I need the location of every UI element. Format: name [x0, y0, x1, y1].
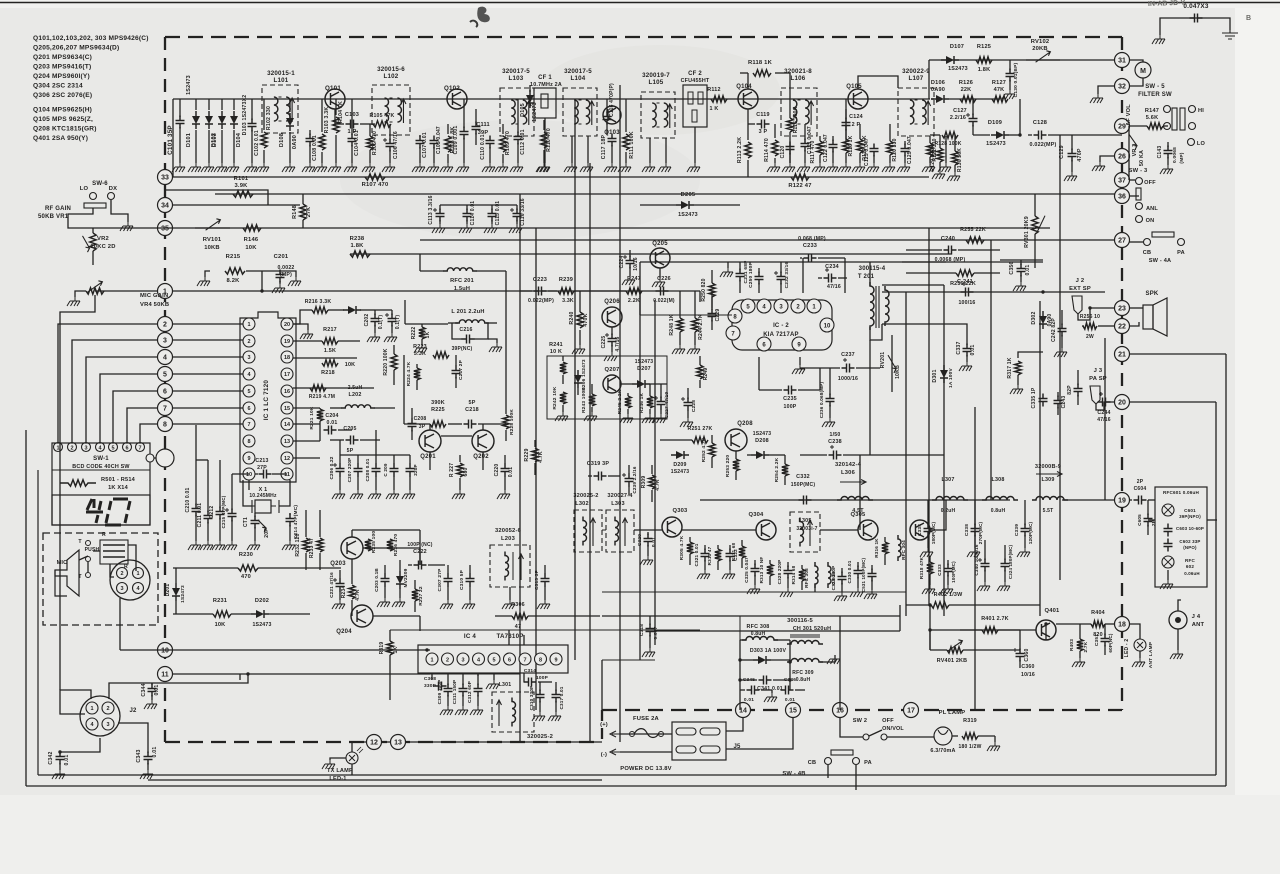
- ground R222: [414, 344, 427, 353]
- svg-text:VR 3: VR 3: [1132, 144, 1138, 157]
- wire mic1: [79, 556, 88, 560]
- wire sw5: [1163, 125, 1168, 127]
- D208 body: [756, 451, 764, 459]
- svg-text:R122 47: R122 47: [788, 183, 811, 189]
- svg-text:C321 0.01: C321 0.01: [694, 543, 699, 566]
- D105 body: [526, 95, 534, 103]
- svg-text:10.245MHz: 10.245MHz: [249, 493, 277, 499]
- R244 body: [692, 318, 698, 332]
- CT1 arrow: [258, 520, 266, 532]
- C143 body: [1164, 146, 1173, 159]
- wire SW-1 contact 5: [113, 391, 157, 443]
- IC1 pin 9: [243, 452, 255, 464]
- 7-segment digit 4: [86, 499, 103, 523]
- ground C317: [548, 712, 561, 721]
- svg-text:1S2473: 1S2473: [678, 212, 698, 218]
- node 33: [158, 170, 173, 185]
- wire SW6: [68, 208, 173, 228]
- R232 body: [303, 538, 309, 552]
- svg-text:7: 7: [163, 405, 167, 412]
- node 10: [158, 643, 173, 658]
- svg-text:ANT LAMP: ANT LAMP: [1148, 641, 1154, 668]
- svg-text:330P: 330P: [424, 683, 437, 689]
- wire node11 ext: [430, 673, 520, 675]
- svg-text:(+): (+): [600, 722, 608, 728]
- ground right: [1222, 30, 1238, 39]
- svg-text:5: 5: [163, 371, 167, 378]
- svg-text:CT1: CT1: [243, 517, 249, 527]
- node 19: [1115, 493, 1130, 508]
- IF transformer L105 320019-7: [641, 92, 675, 138]
- Q401 circle: [1036, 620, 1056, 640]
- svg-text:R129 270K: R129 270K: [930, 144, 936, 171]
- ground R103: [314, 163, 327, 172]
- coil box L301 320025-2: [492, 692, 534, 732]
- svg-text:36: 36: [1118, 193, 1126, 200]
- capacitor C215 47P(MC): [231, 474, 233, 510]
- ground: [687, 163, 700, 172]
- wire 27 sw4a: [1129, 241, 1143, 243]
- svg-text:R234: R234: [341, 586, 347, 599]
- IC1 pin 18: [281, 351, 293, 363]
- C333 body: [944, 564, 953, 577]
- svg-text:Q204 MPS960l(Y): Q204 MPS960l(Y): [33, 73, 90, 80]
- svg-text:LED-1: LED-1: [329, 776, 346, 782]
- chassis dashed bottom left: [165, 741, 602, 743]
- svg-text:1S2473: 1S2473: [948, 66, 968, 72]
- wire node10: [120, 649, 430, 651]
- node common big circle: [156, 449, 174, 467]
- D109 body: [996, 131, 1004, 139]
- IC4 pin 3: [457, 653, 469, 665]
- svg-text:C218: C218: [465, 407, 479, 413]
- wire to node 31: [1060, 59, 1114, 61]
- C122: [829, 140, 838, 153]
- svg-text:602: 602: [1186, 564, 1195, 569]
- IC1 pin 13: [281, 435, 293, 447]
- wire tx mesh1: [352, 529, 420, 531]
- svg-text:C233: C233: [803, 243, 817, 249]
- ground C113: [432, 224, 445, 233]
- C335 body: [1039, 394, 1048, 407]
- ground C320: [640, 556, 653, 565]
- wire bus 194: [215, 193, 1122, 195]
- svg-text:Q401 2SA 950(Y): Q401 2SA 950(Y): [33, 135, 88, 142]
- capacitor C101 35P body: [176, 116, 185, 129]
- svg-text:Q204: Q204: [336, 629, 352, 635]
- wire node2 to IC1 pin1: [173, 323, 243, 325]
- IC2 pin 2: [791, 299, 805, 313]
- svg-text:0.01: 0.01: [651, 537, 657, 547]
- svg-text:C603 10-60P: C603 10-60P: [1176, 526, 1204, 531]
- svg-text:Q102: Q102: [444, 85, 460, 92]
- SW-1 contact 2: [68, 443, 77, 452]
- C322 body: [726, 549, 735, 562]
- svg-text:C110 0.01: C110 0.01: [480, 134, 486, 159]
- svg-text:27K: 27K: [306, 207, 312, 218]
- connector J5 box: [672, 722, 726, 760]
- svg-text:J 2: J 2: [1076, 278, 1085, 284]
- wire VR4 down: [60, 295, 95, 430]
- R224 body: [414, 368, 420, 380]
- svg-text:14: 14: [284, 422, 291, 428]
- wire vert center 6: [639, 262, 641, 660]
- IC1 pin 8: [243, 435, 255, 447]
- arrow minus: [610, 749, 622, 755]
- wire crystal right: [279, 480, 290, 506]
- wire q401 leads: [930, 629, 1036, 631]
- svg-text:Q105 MPS 9625(Z,: Q105 MPS 9625(Z,: [33, 116, 93, 123]
- node 36: [1115, 189, 1130, 204]
- ground C337: [959, 362, 972, 371]
- D303 body: [758, 656, 766, 664]
- ground R245: [620, 414, 633, 423]
- L303 arrow: [623, 518, 628, 546]
- svg-text:R319: R319: [963, 718, 977, 724]
- TX lamp LED-1: [346, 752, 358, 764]
- svg-text:D303 1A 100V: D303 1A 100V: [750, 648, 787, 654]
- C220 body: [501, 464, 510, 477]
- wire main RF line: [173, 98, 930, 100]
- svg-text:300116-5: 300116-5: [787, 618, 813, 624]
- svg-text:Q208 KTC1815(GR): Q208 KTC1815(GR): [33, 126, 97, 133]
- svg-text:6: 6: [508, 658, 511, 664]
- wire vert right 6: [1104, 338, 1106, 500]
- R253 body: [733, 459, 739, 471]
- svg-text:C127: C127: [953, 108, 967, 114]
- svg-text:0.2uH: 0.2uH: [941, 508, 956, 514]
- ground C203b: [377, 598, 390, 607]
- svg-text:L307: L307: [941, 477, 954, 483]
- ceramic filter CF2 CFU455HT: [683, 85, 707, 127]
- IC1 pin 6: [243, 402, 255, 414]
- C318 body: [646, 624, 655, 637]
- ground R119: [852, 163, 865, 172]
- svg-text:RFC 308: RFC 308: [747, 624, 770, 630]
- svg-text:320019-7: 320019-7: [642, 72, 670, 79]
- svg-text:0.022(M): 0.022(M): [653, 298, 675, 304]
- L305 coil: [800, 518, 804, 547]
- ground C307: [440, 600, 453, 609]
- wire sw2 blade: [869, 730, 882, 736]
- svg-text:L305: L305: [798, 518, 811, 524]
- svg-text:C220: C220: [494, 464, 500, 477]
- svg-text:L106: L106: [791, 75, 806, 82]
- ground L104a: [571, 136, 573, 163]
- diode D104 1S2473: [233, 99, 235, 110]
- svg-text:47/16: 47/16: [827, 284, 841, 290]
- svg-text:15: 15: [789, 707, 797, 714]
- svg-text:3: 3: [106, 722, 109, 728]
- svg-text:2.2K: 2.2K: [628, 298, 640, 304]
- IC4 pin 1: [426, 653, 438, 665]
- VR4 arrow: [88, 281, 103, 292]
- C250 body: [755, 272, 764, 285]
- wire node8 to IC1 pin7: [173, 423, 243, 425]
- svg-text:R116 1K: R116 1K: [848, 135, 854, 156]
- svg-text:R223: R223: [413, 344, 427, 350]
- svg-text:0.01: 0.01: [970, 345, 976, 356]
- node 1: [158, 284, 173, 299]
- svg-text:L203: L203: [501, 536, 516, 542]
- svg-text:Q101: Q101: [325, 85, 341, 92]
- svg-text:C109 0.001: C109 0.001: [453, 126, 459, 155]
- CH301 coil: [787, 641, 823, 644]
- svg-text:(MP): (MP): [280, 272, 292, 278]
- Q204 circle: [351, 605, 373, 627]
- svg-text:C125 0.047: C125 0.047: [907, 136, 913, 164]
- C203 body: [388, 314, 397, 327]
- svg-text:C329 330P: C329 330P: [831, 566, 836, 591]
- R233 body: [317, 538, 323, 552]
- ground R403: [1072, 658, 1085, 667]
- svg-text:2.5uH: 2.5uH: [348, 385, 363, 391]
- svg-text:Q306 2SC 2076(E): Q306 2SC 2076(E): [33, 92, 92, 99]
- Q303 circle: [662, 517, 682, 537]
- R255 22K body: [966, 237, 984, 243]
- svg-text:R 227: R 227: [449, 463, 455, 477]
- R130 body: [952, 151, 958, 165]
- node 31: [1115, 53, 1130, 68]
- IC4 pin 5: [488, 653, 500, 665]
- ground C209: [386, 490, 399, 499]
- ground C236: [822, 418, 835, 427]
- svg-text:T 201: T 201: [858, 274, 875, 280]
- svg-text:L103: L103: [509, 75, 524, 82]
- svg-text:10/16: 10/16: [633, 257, 639, 271]
- ground: [344, 163, 357, 172]
- svg-text:C319 3P: C319 3P: [587, 461, 610, 467]
- svg-text:R215: R215: [226, 254, 241, 260]
- microphone symbol: [55, 550, 79, 596]
- ground: [510, 163, 523, 172]
- capacitor C337 0.01: [944, 324, 967, 345]
- Q304 circle: [756, 520, 776, 540]
- IC2 pin 1: [807, 299, 821, 313]
- VR3 arrow: [1129, 134, 1137, 149]
- R127 body: [992, 96, 1008, 102]
- R147 body: [1147, 123, 1163, 129]
- svg-text:26: 26: [1118, 153, 1126, 160]
- svg-text:5.6K: 5.6K: [1146, 115, 1159, 121]
- C110: [486, 136, 495, 149]
- svg-text:29: 29: [1118, 123, 1126, 130]
- svg-text:L104: L104: [571, 75, 586, 82]
- wire q306 out: [930, 500, 946, 530]
- svg-text:12: 12: [370, 739, 378, 746]
- wire ic4 pins top: [508, 630, 510, 645]
- R401 body: [982, 627, 998, 633]
- IC2 pin 8: [728, 309, 742, 323]
- svg-text:C335 1P: C335 1P: [1031, 387, 1037, 408]
- svg-text:300115-4: 300115-4: [859, 266, 886, 272]
- wire ant box right: [1207, 519, 1217, 521]
- svg-text:CFU455HT: CFU455HT: [681, 78, 710, 84]
- node 20: [1115, 395, 1130, 410]
- ground: [302, 163, 315, 172]
- C102: [248, 119, 257, 132]
- svg-text:1A 100V: 1A 100V: [948, 367, 954, 387]
- svg-text:CF 2: CF 2: [688, 71, 702, 77]
- D207 body: [637, 380, 645, 388]
- R225 body: [430, 421, 446, 427]
- Q205 circle: [650, 248, 670, 268]
- C345 body: [747, 686, 760, 695]
- wire AGC vertical: [1019, 99, 1021, 135]
- D302 body: [1039, 316, 1047, 324]
- ground R106: [362, 163, 375, 172]
- R125 body: [976, 57, 992, 63]
- ground D104: [226, 163, 239, 172]
- svg-text:R319: R319: [379, 642, 385, 655]
- C338 body: [971, 524, 980, 537]
- svg-text:2: 2: [120, 571, 123, 577]
- R319b body: [962, 733, 978, 739]
- svg-text:C236 0.068(MP): C236 0.068(MP): [819, 381, 824, 418]
- svg-text:LO: LO: [80, 186, 89, 192]
- R108 body: [445, 136, 451, 152]
- wire j2ext: [1078, 308, 1114, 320]
- svg-text:0.0022: 0.0022: [277, 265, 294, 271]
- svg-text:RFC 304: RFC 304: [901, 540, 906, 560]
- wire bottom bus1: [38, 774, 1216, 776]
- C114 body: [463, 209, 472, 222]
- svg-text:SW - 3: SW - 3: [1129, 168, 1148, 174]
- svg-text:R120 330: R120 330: [892, 138, 898, 161]
- R116 body: [843, 139, 849, 153]
- svg-text:RV401 2KB: RV401 2KB: [937, 658, 967, 664]
- svg-text:D206 1S2473: D206 1S2473: [581, 359, 587, 391]
- D106 body: [936, 95, 944, 103]
- SW-1 contact 1: [54, 443, 63, 452]
- C204 body: [324, 426, 337, 435]
- svg-text:C344: C344: [141, 683, 147, 696]
- svg-text:D108: D108: [279, 133, 285, 147]
- C233 body: [804, 254, 817, 263]
- ground C312: [470, 706, 483, 715]
- svg-text:SW 2: SW 2: [853, 718, 867, 724]
- node 8: [158, 417, 173, 432]
- inner frame left: [37, 470, 39, 775]
- capacitor C308 330P: [431, 673, 433, 680]
- wire q204 down: [419, 616, 421, 631]
- C232 body: [777, 272, 786, 285]
- wire SW-1 contact 1: [58, 324, 157, 443]
- svg-text:R245 2.2K: R245 2.2K: [617, 389, 623, 414]
- IC1 pin 4: [243, 368, 255, 380]
- R104 1K body: [333, 117, 339, 133]
- svg-text:33: 33: [161, 174, 169, 181]
- svg-text:47: 47: [515, 624, 521, 630]
- IC2 pin 9: [792, 337, 806, 351]
- L308 coil: [982, 497, 1018, 501]
- svg-text:4.7K: 4.7K: [355, 589, 361, 601]
- svg-text:C317 0.01: C317 0.01: [559, 686, 564, 709]
- IC2 pin 10: [820, 318, 834, 332]
- R242 body: [560, 392, 566, 404]
- C211 body: [204, 511, 213, 524]
- IC4 pin 6: [504, 653, 516, 665]
- C129 body: [1068, 149, 1077, 162]
- svg-text:R148: R148: [292, 205, 298, 219]
- C226 body: [656, 287, 669, 296]
- R311 body: [739, 546, 745, 558]
- RFC304 coil: [898, 535, 901, 561]
- R217 body: [322, 338, 338, 344]
- svg-text:L303: L303: [611, 501, 625, 507]
- svg-text:320142-4: 320142-4: [835, 462, 862, 468]
- IC1 pin 17: [281, 368, 293, 380]
- svg-text:0.022(MP): 0.022(MP): [1030, 142, 1057, 148]
- svg-text:C113 3.3/16: C113 3.3/16: [428, 195, 434, 224]
- svg-text:R314 68: R314 68: [791, 565, 796, 584]
- svg-text:R401 2.7K: R401 2.7K: [981, 616, 1009, 622]
- R319 body: [387, 641, 393, 655]
- ground L105a: [649, 138, 651, 163]
- svg-text:R255 22K: R255 22K: [960, 227, 986, 233]
- C228 body: [684, 398, 693, 411]
- svg-text:320022-9: 320022-9: [902, 68, 930, 75]
- C242b body: [1074, 384, 1083, 397]
- svg-text:PUSH: PUSH: [85, 547, 100, 553]
- svg-text:16: 16: [284, 389, 290, 395]
- switch SW-4A CB PA: [1144, 239, 1151, 246]
- svg-text:D201: D201: [165, 584, 171, 597]
- svg-text:10: 10: [161, 647, 169, 654]
- ground C329: [834, 592, 847, 601]
- wire spk: [1129, 307, 1143, 309]
- ground R244: [687, 345, 700, 354]
- Q203 circle: [341, 537, 363, 559]
- svg-text:R256 10: R256 10: [1080, 314, 1100, 320]
- wire led1: [352, 742, 367, 752]
- wire mixer row 424: [404, 423, 430, 425]
- svg-text:OFF: OFF: [1144, 180, 1156, 186]
- C128 body: [1034, 131, 1047, 140]
- ground R108: [440, 163, 453, 172]
- coil box L203 320052-6: [490, 545, 530, 587]
- svg-text:C330 0.01: C330 0.01: [847, 560, 852, 583]
- wire vco top: [405, 323, 448, 325]
- svg-text:10K: 10K: [215, 622, 226, 628]
- mic connector circle: [110, 560, 150, 600]
- wire pin13 c204: [319, 430, 321, 441]
- svg-text:9: 9: [554, 658, 557, 664]
- wire led2: [1129, 624, 1140, 639]
- svg-text:C215 47P(MC): C215 47P(MC): [221, 495, 226, 528]
- D205 body: [681, 201, 689, 209]
- Q305 circle: [858, 520, 878, 540]
- svg-text:C224: C224: [619, 256, 625, 269]
- svg-text:R112: R112: [707, 87, 720, 93]
- ground: [1160, 580, 1173, 589]
- R231 body: [213, 611, 231, 617]
- svg-text:4.7/16: 4.7/16: [615, 336, 621, 351]
- svg-text:C531 100P(MC): C531 100P(MC): [861, 558, 866, 593]
- ground: [797, 163, 810, 172]
- coil box L303 320027-4: [606, 510, 634, 552]
- C330 body: [854, 566, 863, 579]
- svg-text:RFC601 0.06uH: RFC601 0.06uH: [1163, 490, 1200, 495]
- C601 trim: [1162, 504, 1174, 516]
- svg-text:C312 60P: C312 60P: [467, 681, 472, 703]
- ground C225: [604, 352, 617, 361]
- R101 body: [233, 191, 253, 197]
- svg-text:D101: D101: [186, 133, 192, 147]
- SW-1 contact 5: [109, 443, 118, 452]
- svg-text:OFF: OFF: [882, 718, 894, 724]
- ground L105b: [665, 138, 667, 163]
